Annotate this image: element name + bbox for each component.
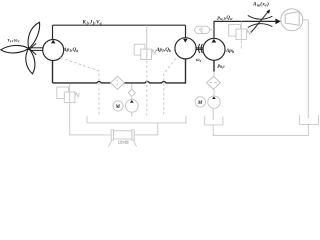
charge pump CP1 triangle [130, 100, 134, 103]
bottom connector wire [213, 124, 308, 135]
relief valve V2 [134, 44, 151, 59]
wire pump2 bottom [213, 60, 215, 71]
motor M circle [175, 38, 196, 59]
drain wire valve1 to cooler [70, 103, 111, 135]
wire filter2 to pump3 [213, 89, 215, 96]
svg-text:ωs: ωs [196, 58, 202, 63]
svg-text:M: M [115, 105, 121, 110]
pump P2 circle [203, 38, 225, 60]
wire pump1 top to rail [52, 25, 54, 39]
variable orifice arcs [248, 12, 273, 33]
motor M1 circle [113, 101, 123, 111]
wire to filter2 [213, 72, 215, 77]
return rail B with hops [53, 81, 186, 83]
suction wire CP1 [131, 112, 133, 116]
wire pump1 bottom [52, 61, 54, 83]
valve V2 spring [152, 50, 156, 54]
svg-text:Δp1,Qb: Δp1,Qb [155, 47, 171, 53]
turbine outlet wire [303, 20, 309, 119]
svg-text:Δp1,Qa: Δp1,Qa [62, 47, 78, 53]
shaft with arrow [30, 43, 44, 54]
cooler [109, 130, 137, 147]
wire top rail A [53, 24, 186, 26]
tank T2 [205, 116, 223, 125]
pump P2 triangle [212, 39, 217, 43]
relief valve V3 [229, 21, 251, 50]
dashed pilot valve2 [146, 61, 148, 116]
filter F2 diamond [207, 76, 221, 89]
turbine nozzle trapezoid [285, 11, 299, 25]
charge pump CP2 triangle [212, 96, 216, 99]
svg-text:τr,ωr: τr,ωr [7, 37, 19, 43]
svg-text:ph,t: ph,t [217, 63, 226, 69]
tank T1 [87, 116, 186, 123]
inlet arrow to turbine [275, 19, 280, 25]
accumulator [195, 26, 214, 33]
rotor hub [28, 48, 30, 50]
charge pump CP1 circle [126, 100, 139, 113]
svg-text:K1,J1,Va: K1,J1,Va [82, 19, 102, 25]
svg-text:M: M [197, 101, 203, 106]
dashed pilot from motor [164, 59, 176, 116]
charge pump CP2 circle [208, 96, 220, 108]
turbine circle [281, 9, 303, 31]
motor M2 circle [195, 97, 205, 107]
pump P1 circle [43, 40, 64, 61]
check valve diamond [128, 89, 135, 96]
suction wire CP2 into tank2 [212, 108, 214, 120]
motor triangle (down) [183, 39, 188, 43]
svg-text:pw,1,Qw: pw,1,Qw [217, 16, 233, 21]
filter F1 diamond [111, 76, 125, 89]
shaft coupling [196, 44, 203, 53]
tank T3 [300, 115, 319, 124]
svg-text:Δph: Δph [225, 48, 234, 54]
wire motor bottom [185, 59, 187, 84]
orifice arrowhead [266, 9, 270, 14]
wind rotor blades [1, 22, 40, 74]
svg-text:Am(xv): Am(xv) [252, 0, 269, 7]
charge wire rail to check valve [131, 84, 133, 90]
wire motor top [185, 25, 187, 38]
valve V2 riser [146, 25, 148, 59]
relief valve V1 [57, 84, 80, 103]
wire check to charge pump [131, 96, 133, 99]
wire pump2 top riser [214, 21, 276, 38]
pump P1 triangle [51, 40, 56, 44]
dashed pilot from pump1 [61, 58, 100, 116]
wire cooler to tank1 [134, 123, 158, 135]
